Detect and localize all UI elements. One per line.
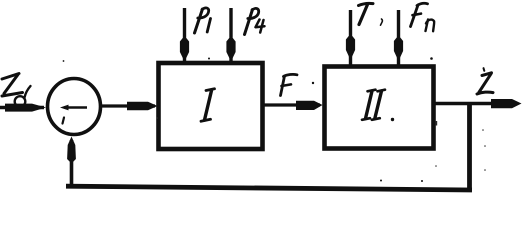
label z output xyxy=(477,68,493,94)
wire feedback right vertical xyxy=(467,104,472,191)
label Fn xyxy=(411,3,435,31)
comma speck xyxy=(381,19,383,25)
wire F from block I to block II xyxy=(263,101,323,110)
block II xyxy=(325,67,434,149)
label T xyxy=(359,3,374,24)
label p1 xyxy=(195,8,211,33)
speck dots xyxy=(312,82,314,84)
summing junction S1 xyxy=(48,79,101,135)
wire summing junction to block I xyxy=(100,102,158,111)
wire input arrow into summing junction xyxy=(0,104,46,112)
wire feedback left vertical with arrow into summing junction xyxy=(67,137,76,188)
label p4 xyxy=(245,8,265,34)
arrow p4 into block I xyxy=(226,8,235,64)
label I xyxy=(201,89,215,122)
minus sign inside summing junction xyxy=(60,105,87,124)
arrow p1 into block I xyxy=(180,8,189,64)
label II xyxy=(362,90,385,120)
wire output z from block II xyxy=(434,99,522,108)
wire feedback bottom horizontal xyxy=(66,186,472,190)
node Zδ input label xyxy=(2,74,31,107)
block I xyxy=(159,63,263,149)
arrow T into block II xyxy=(346,10,355,66)
arrow Fn into block II xyxy=(394,10,403,66)
dot after II xyxy=(391,118,394,121)
label F xyxy=(281,74,298,95)
